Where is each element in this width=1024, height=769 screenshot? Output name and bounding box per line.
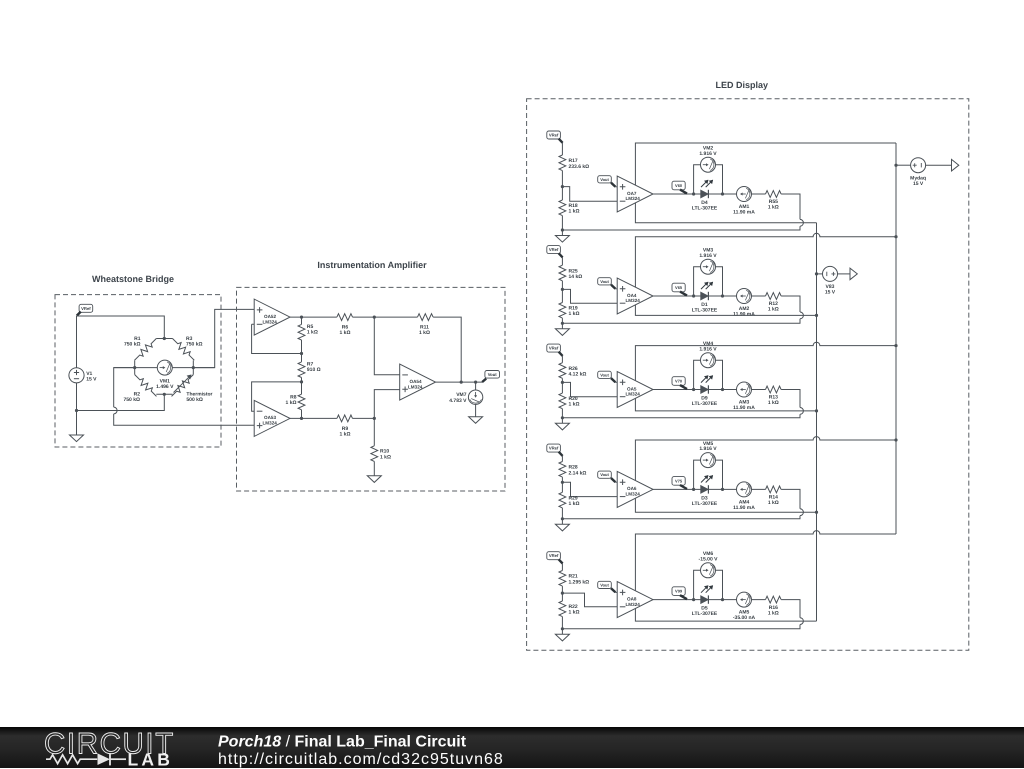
ground (row 4) (555, 524, 569, 531)
junction divider tap (561, 381, 564, 384)
wire OA52 feedback (252, 324, 302, 353)
wire output return (562, 600, 803, 629)
svg-text:-35.00 nA: -35.00 nA (733, 615, 756, 621)
wire divider to ground (561, 216, 563, 236)
wire VRef to divider (561, 257, 563, 265)
wire Vout flag to op-amp + (615, 481, 617, 483)
wire (301, 378, 303, 395)
wire divider to ground (561, 318, 563, 329)
LED diode D4 (701, 180, 714, 199)
wire op-amp output (653, 599, 766, 601)
wire VM loop left (694, 165, 701, 194)
svg-text:1 kΩ: 1 kΩ (768, 307, 779, 313)
junction V- rail row 2 (815, 314, 818, 317)
wire VRef to divider (561, 563, 563, 570)
thermistor arrow (174, 375, 191, 392)
op-amp OA53 (LM324) (254, 400, 290, 436)
wire VRef to bridge top (77, 316, 165, 339)
ground (row 5) (555, 634, 569, 641)
net flag Vout (482, 371, 499, 383)
net flag Vout (598, 278, 616, 289)
wire bridge bottom to V1 return (77, 394, 165, 410)
svg-text:LM324: LM324 (408, 384, 423, 389)
ground (row 1) (555, 236, 569, 243)
svg-text:1 kΩ: 1 kΩ (768, 400, 779, 406)
junction VM7 tap (474, 381, 477, 384)
ground (row 3) (555, 423, 569, 430)
junction VM loop left (692, 192, 695, 195)
wire V- rail row 1 (635, 203, 816, 223)
wire VM loop right (716, 570, 723, 599)
net flag VRef (547, 344, 563, 356)
resistor R22 (559, 601, 566, 617)
junction bridge top vertex (163, 337, 166, 340)
svg-text:1 kΩ: 1 kΩ (569, 610, 580, 616)
wire bridge left vertex to OA53 + (114, 368, 255, 426)
LED diode D1 (701, 282, 714, 301)
junction VM loop right (721, 598, 724, 601)
wire OA54 + to node (374, 390, 399, 419)
svg-text:1 kΩ: 1 kΩ (569, 209, 580, 215)
op-amp OA52 (LM324) (254, 299, 290, 335)
junction VM loop right (721, 388, 724, 391)
voltmeter VM6 (701, 563, 716, 578)
wire op-amp output (653, 389, 766, 391)
wire (373, 418, 375, 445)
wire divider middle (561, 281, 563, 303)
svg-text:1.916 V: 1.916 V (699, 346, 717, 352)
voltage source Mydaq (911, 158, 926, 173)
voltmeter VM2 (701, 157, 716, 172)
section box: Wheatstone Bridge (55, 295, 221, 447)
svg-text:LM324: LM324 (626, 392, 641, 397)
svg-text:15 V: 15 V (825, 290, 836, 296)
resistor R18 (559, 200, 566, 216)
wire V- rail row 5 (635, 609, 816, 622)
net flag VRef (547, 131, 563, 143)
net flag V65 (672, 283, 687, 295)
svg-text:Wheatstone Bridge: Wheatstone Bridge (92, 274, 174, 284)
op-amp OA7 (LM324) (617, 176, 653, 212)
junction VM loop left (692, 388, 695, 391)
resistor R29 (559, 492, 566, 508)
junction return/ground (561, 517, 564, 520)
svg-text:4.12 kΩ: 4.12 kΩ (569, 372, 587, 378)
wire V83 to port (837, 273, 850, 275)
svg-text:OA52: OA52 (264, 314, 276, 319)
svg-text:1 kΩ: 1 kΩ (569, 311, 580, 317)
junction VM loop left (692, 488, 695, 491)
op-amp OA5 (LM324) (617, 372, 653, 408)
wire Vout flag to op-amp + (615, 186, 617, 188)
svg-text:1 kΩ: 1 kΩ (768, 205, 779, 211)
resistor Thermistor (169, 372, 195, 398)
svg-text:OA7: OA7 (627, 191, 637, 196)
svg-text:OA6: OA6 (627, 486, 637, 491)
wire crossbar left (114, 367, 158, 369)
port Mydaq port (952, 159, 959, 171)
svg-text:1 kΩ: 1 kΩ (340, 432, 351, 438)
wire Mydaq to port (925, 164, 951, 166)
svg-text:LM324: LM324 (626, 492, 641, 497)
svg-text:Porch18 / Final Lab_Final Circ: Porch18 / Final Lab_Final Circuit (218, 734, 467, 751)
junction R9 / OA54 + / R10 (373, 417, 376, 420)
op-amp OA4 (LM324) (617, 278, 653, 314)
resistor R16 (766, 596, 782, 603)
net flag VRef (547, 246, 563, 258)
wire R6 to R11 (353, 316, 418, 318)
wire VM loop left (694, 460, 701, 489)
resistor R5 (298, 324, 305, 340)
svg-text:LAB: LAB (128, 750, 174, 769)
wire to OA54 - (374, 317, 399, 375)
net flag VRef (547, 552, 563, 564)
wire OA53 output (290, 417, 337, 419)
junction bridge-bottom return (75, 409, 78, 412)
resistor R1 (132, 336, 158, 362)
svg-text:750 kΩ: 750 kΩ (186, 341, 203, 347)
svg-text:1 kΩ: 1 kΩ (380, 454, 391, 460)
svg-text:OA53: OA53 (264, 415, 276, 420)
resistor R19 (559, 303, 566, 319)
junction return/ground (561, 416, 564, 419)
resistor R14 (766, 486, 782, 493)
svg-text:LM324: LM324 (263, 319, 278, 324)
wire output return (562, 489, 803, 518)
CircuitLab logo: CIRCUIT outline text (0, 727, 1024, 769)
junction return/ground (561, 228, 564, 231)
port V83 port (850, 268, 857, 280)
resistor R55 (766, 191, 782, 198)
resistor R11 (418, 314, 434, 321)
svg-text:Vout: Vout (600, 279, 609, 284)
junction VM loop right (721, 192, 724, 195)
wire VM loop left (694, 570, 701, 599)
wire bridge top flat (156, 338, 172, 340)
op-amp OA6 (LM324) (617, 471, 653, 507)
voltmeter VM3 (701, 259, 716, 274)
svg-text:11.90 mA: 11.90 mA (733, 405, 755, 411)
junction bridge right vertex (192, 366, 195, 369)
wire VRef to divider (561, 456, 563, 462)
svg-text:LM324: LM324 (626, 196, 641, 201)
wire output return (562, 390, 803, 418)
svg-text:Vout: Vout (600, 177, 609, 182)
svg-text:11.90 mA: 11.90 mA (733, 505, 755, 511)
wire divider middle (561, 477, 563, 492)
wire V+ rail row 1 (635, 143, 896, 185)
ammeter AM4 (737, 482, 752, 497)
svg-text:750 kΩ: 750 kΩ (123, 397, 140, 403)
svg-text:LED Display: LED Display (716, 80, 769, 90)
svg-text:V75: V75 (675, 478, 683, 483)
wire VRef to divider (561, 356, 563, 363)
svg-text:15 V: 15 V (86, 376, 97, 382)
wire divider tap to op-amp - (562, 593, 617, 607)
wire output return (562, 194, 803, 230)
svg-text:VRef: VRef (549, 133, 559, 138)
junction V+ rail row 2 (894, 235, 897, 238)
footer bar (0, 727, 1024, 768)
resistor R21 (559, 571, 566, 587)
wire to V83 (817, 273, 823, 275)
resistor R8 (298, 394, 305, 410)
resistor R9 (337, 415, 353, 422)
svg-text:1.916 V: 1.916 V (699, 253, 717, 259)
svg-text:VRef: VRef (81, 306, 91, 311)
resistor R26 (559, 363, 566, 379)
svg-text:V99: V99 (675, 589, 683, 594)
wire divider to ground (561, 409, 563, 424)
svg-text:OA5: OA5 (627, 386, 637, 391)
wire R9 to node (353, 417, 375, 419)
op-amp OA8 (LM324) (617, 582, 653, 618)
junction return/ground (561, 627, 564, 630)
wire divider tap to op-amp - (562, 382, 617, 396)
junction divider tap (561, 288, 564, 291)
svg-text:14 kΩ: 14 kΩ (569, 274, 583, 280)
resistor R6 (337, 314, 353, 321)
LED diode D3 (701, 475, 714, 494)
wire op-amp output (653, 193, 766, 195)
junction R6 / OA54 - (373, 316, 376, 319)
junction VM loop right (721, 294, 724, 297)
wire bridge left flat (134, 360, 136, 374)
ground (row 2) (555, 329, 569, 336)
svg-text:1 kΩ: 1 kΩ (286, 400, 297, 406)
wire divider tap to op-amp - (562, 187, 617, 202)
svg-text:V60: V60 (675, 183, 683, 188)
junction VM loop left (692, 294, 695, 297)
ammeter AM2 (737, 289, 752, 304)
wire R11 to output node (433, 317, 461, 382)
svg-text:2.14 kΩ: 2.14 kΩ (569, 470, 587, 476)
wire V+ rail row 5 (635, 531, 896, 591)
wire (301, 410, 303, 419)
wire (301, 317, 303, 324)
voltage source V83 (823, 266, 838, 281)
resistor R10 (371, 446, 378, 462)
svg-text:OA54: OA54 (410, 379, 422, 384)
resistor R7 (298, 362, 305, 378)
wire divider tap to op-amp - (562, 289, 617, 303)
resistor R13 (766, 386, 782, 393)
svg-text:V65: V65 (675, 285, 683, 290)
svg-text:1 kΩ: 1 kΩ (768, 610, 779, 616)
wire VM loop left (694, 267, 701, 296)
voltage source V1 (69, 368, 84, 383)
svg-text:Vout: Vout (488, 372, 498, 377)
junction V+ rail row 3 (894, 344, 897, 347)
junction bridge left vertex (133, 366, 136, 369)
wire bridge bottom flat (156, 393, 172, 395)
svg-text:500 kΩ: 500 kΩ (186, 397, 203, 403)
wire VRef to divider (561, 143, 563, 155)
wire divider middle (561, 171, 563, 200)
svg-text:VRef: VRef (549, 346, 559, 351)
svg-text:1 kΩ: 1 kΩ (569, 501, 580, 507)
svg-text:11.90 mA: 11.90 mA (733, 209, 755, 215)
section box: LED Display (527, 99, 969, 650)
svg-text:OA8: OA8 (627, 596, 637, 601)
wire VM loop left (694, 360, 701, 389)
svg-text:-15.00 V: -15.00 V (699, 556, 719, 562)
junction OA52 out / R5 (300, 316, 303, 319)
ground (VM7) (469, 417, 483, 424)
junction V- rail row 4 (815, 511, 818, 514)
wire (475, 404, 477, 416)
svg-text:Vout: Vout (600, 582, 609, 587)
svg-text:LTL-307EE: LTL-307EE (692, 611, 718, 617)
svg-text:LM324: LM324 (626, 602, 641, 607)
wire to Mydaq (896, 164, 911, 166)
net flag V99 (672, 587, 687, 599)
resistor R2 (132, 372, 158, 398)
wire V- rail row 3 (635, 398, 816, 411)
svg-text:233.6 kΩ: 233.6 kΩ (569, 164, 590, 170)
svg-text:LTL-307EE: LTL-307EE (692, 401, 718, 407)
junction divider tap (561, 592, 564, 595)
junction V83 tap (815, 272, 818, 275)
wire VRef to V1 (76, 316, 78, 368)
svg-text:1 kΩ: 1 kΩ (768, 500, 779, 506)
net flag Vout (598, 176, 616, 187)
svg-text:1 kΩ: 1 kΩ (340, 330, 351, 336)
wire VM loop right (716, 460, 723, 489)
svg-text:LM324: LM324 (263, 421, 278, 426)
junction divider tap (561, 481, 564, 484)
wire op-amp output (653, 295, 766, 297)
resistor R3 (170, 336, 196, 362)
wire VM loop right (716, 165, 723, 194)
junction divider tap (561, 185, 564, 188)
net flag Vout (598, 581, 616, 592)
wire VM loop right (716, 360, 723, 389)
svg-text:V70: V70 (675, 379, 683, 384)
wire (301, 340, 303, 362)
wire divider to ground (561, 617, 563, 635)
ammeter AM3 (737, 382, 752, 397)
wire divider middle (561, 378, 563, 393)
wire (373, 461, 375, 475)
junction R11 feedback (460, 381, 463, 384)
wire OA54 output (436, 381, 484, 383)
wire Vout flag to op-amp + (615, 288, 617, 290)
svg-text:Instrumentation Amplifier: Instrumentation Amplifier (317, 260, 427, 270)
svg-text:VRef: VRef (549, 553, 559, 558)
ammeter AM1 (737, 187, 752, 202)
wire V- rail row 2 (635, 305, 816, 316)
svg-text:1 kΩ: 1 kΩ (419, 330, 430, 336)
wire bridge right flat (192, 360, 194, 374)
net flag V70 (672, 377, 687, 389)
wire Vout flag to op-amp + (615, 591, 617, 593)
logo resistor zigzag + diode (46, 755, 97, 764)
wire divider to ground (561, 508, 563, 524)
junction R7/R8 feedback (300, 380, 303, 383)
wire V- rail row 4 (635, 498, 816, 512)
wire OA53 feedback (252, 382, 302, 411)
junction R8 / OA53 out (300, 417, 303, 420)
op-amp OA54 (LM324) (400, 364, 436, 400)
svg-text:Vout: Vout (600, 372, 609, 377)
resistor R20 (559, 393, 566, 409)
wire crossbar right (172, 367, 214, 369)
svg-text:LM324: LM324 (626, 298, 641, 303)
net flag Vout (598, 371, 616, 382)
svg-text:4.783 V: 4.783 V (449, 398, 467, 404)
svg-text:OA4: OA4 (627, 293, 637, 298)
wire V1 to ground (76, 383, 78, 436)
wire OA52 output (290, 316, 337, 318)
voltmeter VM1 (157, 360, 172, 375)
junction bridge bottom vertex (163, 393, 166, 396)
resistor R17 (559, 155, 566, 171)
LED diode D5 (701, 585, 714, 604)
wire V+ supply bus (895, 143, 897, 534)
wire Vout flag to op-amp + (615, 381, 617, 383)
ground (R10) (367, 476, 381, 483)
LED diode D9 (701, 375, 714, 394)
wire V+ rail row 4 (635, 437, 896, 481)
svg-text:1.295 kΩ: 1.295 kΩ (569, 579, 590, 585)
wire bridge right vertex to OA52 + (193, 309, 254, 367)
svg-text:Vout: Vout (600, 472, 609, 477)
svg-text:VRef: VRef (549, 446, 559, 451)
voltmeter VM7 (468, 390, 482, 404)
wire (475, 382, 477, 390)
net flag VRef (77, 304, 93, 315)
resistor R28 (559, 462, 566, 478)
resistor R12 (766, 293, 782, 300)
svg-text:LTL-307EE: LTL-307EE (692, 205, 718, 211)
net flag V75 (672, 477, 687, 489)
wire op-amp output (653, 488, 766, 490)
net flag Vout (598, 471, 616, 482)
svg-text:910 Ω: 910 Ω (307, 367, 321, 373)
net flag VRef (547, 444, 563, 456)
wire V- supply bus (816, 223, 818, 621)
wire V+ rail row 2 (635, 233, 896, 287)
voltmeter VM5 (701, 453, 716, 468)
junction return/ground (561, 322, 564, 325)
svg-text:LTL-307EE: LTL-307EE (692, 307, 718, 313)
resistor R25 (559, 265, 566, 281)
junction Mydaq tap (894, 164, 897, 167)
svg-text:1.916 V: 1.916 V (699, 446, 717, 452)
svg-text:11.90 mA: 11.90 mA (733, 311, 755, 317)
junction VM loop left (692, 598, 695, 601)
wire divider middle (561, 586, 563, 601)
svg-text:1 kΩ: 1 kΩ (307, 330, 318, 336)
ground (V1) (70, 435, 84, 442)
wire divider tap to op-amp - (562, 482, 617, 496)
svg-text:15 V: 15 V (913, 181, 924, 187)
svg-text:LTL-307EE: LTL-307EE (692, 501, 718, 507)
junction VM loop right (721, 488, 724, 491)
junction V+ rail row 4 (894, 438, 897, 441)
wire V+ rail row 3 (635, 342, 896, 380)
svg-text:1 kΩ: 1 kΩ (569, 402, 580, 408)
svg-text:750 kΩ: 750 kΩ (124, 341, 141, 347)
net flag V60 (672, 181, 687, 193)
section box: Instrumentation Amplifier (237, 287, 506, 491)
svg-text:http://circuitlab.com/cd32c95t: http://circuitlab.com/cd32c95tuvn68 (218, 751, 504, 768)
svg-text:1.496 V: 1.496 V (156, 384, 174, 390)
svg-text:1.916 V: 1.916 V (699, 151, 717, 157)
junction V- rail row 3 (815, 409, 818, 412)
junction R5/R7 feedback (300, 352, 303, 355)
